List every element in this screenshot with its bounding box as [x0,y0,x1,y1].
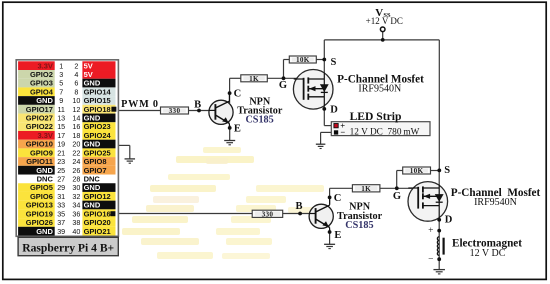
svg-text:GPIO10: GPIO10 [26,140,53,149]
svg-text:GND: GND [36,96,53,105]
svg-text:36: 36 [72,209,80,218]
svg-text:GND: GND [84,114,101,123]
svg-text:GPIO11: GPIO11 [26,157,53,166]
svg-text:GND: GND [84,79,101,88]
svg-text:GPIO9: GPIO9 [30,148,53,157]
svg-text:GND: GND [84,183,101,192]
svg-text:GPIO12: GPIO12 [84,192,111,201]
svg-text:32: 32 [72,192,80,201]
svg-text:21: 21 [57,148,65,157]
svg-text:1K: 1K [249,75,259,83]
svg-text:330: 330 [169,107,181,115]
svg-text:GPIO18: GPIO18 [84,105,111,114]
svg-text:14: 14 [72,114,80,123]
svg-text:GPIO24: GPIO24 [84,131,112,140]
svg-text:5V: 5V [84,70,93,79]
svg-text:8: 8 [74,87,78,96]
svg-text:CS185: CS185 [345,220,373,231]
svg-text:330: 330 [262,210,274,218]
svg-text:17: 17 [57,131,65,140]
svg-text:30: 30 [72,183,80,192]
svg-text:24: 24 [72,157,80,166]
svg-text:S: S [331,57,337,68]
svg-text:C: C [234,89,242,100]
svg-text:12 V DC: 12 V DC [470,248,506,259]
svg-text:39: 39 [57,227,65,236]
svg-text:LED Strip: LED Strip [350,110,402,123]
svg-text:GPIO17: GPIO17 [26,105,53,114]
svg-text:GPIO4: GPIO4 [30,87,54,96]
svg-text:18: 18 [72,131,80,140]
svg-text:D: D [445,214,453,225]
svg-text:B: B [295,201,302,212]
svg-text:31: 31 [57,192,65,201]
svg-text:23: 23 [57,157,65,166]
svg-text:19: 19 [57,140,65,149]
svg-text:40: 40 [72,227,80,236]
svg-text:9: 9 [59,96,63,105]
svg-text:GND: GND [36,227,53,236]
svg-text:S: S [444,165,450,176]
svg-text:10K: 10K [410,167,424,175]
svg-text:DNC: DNC [37,174,54,183]
svg-text:E: E [334,230,341,241]
svg-text:11: 11 [57,105,64,114]
svg-text:−: − [428,255,433,265]
svg-text:G: G [279,80,287,91]
svg-text:28: 28 [72,174,80,183]
svg-text:20: 20 [72,140,80,149]
svg-text:GPIO27: GPIO27 [26,114,53,123]
svg-text:26: 26 [72,166,80,175]
svg-text:7: 7 [59,87,63,96]
svg-text:+: + [428,226,433,236]
svg-text:25: 25 [57,166,65,175]
svg-text:B: B [194,99,201,110]
svg-text:10K: 10K [296,56,310,64]
svg-text:GPIO15: GPIO15 [84,96,111,105]
svg-text:IRF9540N: IRF9540N [358,84,401,95]
svg-text:PWM 0: PWM 0 [121,99,159,110]
svg-text:35: 35 [57,209,65,218]
svg-text:GPIO3: GPIO3 [30,79,53,88]
svg-text:GND: GND [36,166,53,175]
svg-text:GPIO19: GPIO19 [26,209,53,218]
svg-text:13: 13 [57,114,65,123]
svg-text:GPIO5: GPIO5 [30,183,53,192]
svg-text:Raspberry Pi 4 B+: Raspberry Pi 4 B+ [22,241,114,254]
svg-text:GPIO21: GPIO21 [84,227,111,236]
svg-text:6: 6 [74,79,78,88]
svg-text:IRF9540N: IRF9540N [474,197,517,208]
svg-text:3.3V: 3.3V [37,131,52,140]
svg-text:22: 22 [72,148,80,157]
svg-text:G: G [393,191,401,202]
svg-text:DNC: DNC [84,174,101,183]
svg-text:34: 34 [72,201,80,210]
svg-text:CS185: CS185 [245,115,273,126]
svg-text:−: − [340,127,345,137]
svg-text:GPIO14: GPIO14 [84,87,112,96]
svg-text:3: 3 [59,70,63,79]
svg-text:33: 33 [57,201,65,210]
svg-text:GPIO20: GPIO20 [84,218,111,227]
svg-text:10: 10 [72,96,80,105]
svg-text:29: 29 [57,183,65,192]
svg-text:GPIO26: GPIO26 [26,218,53,227]
svg-text:+12 V DC: +12 V DC [366,16,403,26]
svg-text:GPIO2: GPIO2 [30,70,53,79]
svg-text:C: C [334,193,342,204]
svg-text:1K: 1K [361,185,371,193]
svg-text:GPIO25: GPIO25 [84,148,111,157]
svg-text:D: D [330,104,338,115]
svg-text:15: 15 [57,122,65,131]
svg-text:GPIO13: GPIO13 [26,201,53,210]
svg-text:12 V DC 780 mW: 12 V DC 780 mW [350,127,420,137]
svg-text:GPIO8: GPIO8 [84,157,107,166]
svg-text:4: 4 [74,70,78,79]
svg-text:GPIO6: GPIO6 [30,192,53,201]
svg-text:2: 2 [74,61,78,70]
svg-text:5V: 5V [84,61,93,70]
svg-text:GND: GND [84,201,101,210]
svg-text:38: 38 [72,218,80,227]
svg-text:GPIO16: GPIO16 [84,209,111,218]
svg-text:12: 12 [72,105,80,114]
svg-text:37: 37 [57,218,65,227]
svg-text:E: E [234,124,241,135]
svg-text:GPIO23: GPIO23 [84,122,111,131]
svg-text:1: 1 [59,61,63,70]
svg-text:GND: GND [84,140,101,149]
svg-text:GPIO7: GPIO7 [84,166,107,175]
svg-text:GPIO22: GPIO22 [26,122,53,131]
svg-text:27: 27 [57,174,65,183]
svg-text:5: 5 [59,79,63,88]
svg-text:3.3V: 3.3V [37,61,52,70]
svg-text:16: 16 [72,122,80,131]
